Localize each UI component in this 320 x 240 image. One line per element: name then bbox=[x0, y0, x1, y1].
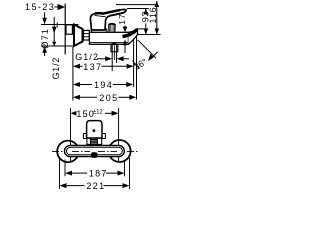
svg-text:±12: ±12 bbox=[93, 110, 104, 116]
component union nut bbox=[84, 30, 90, 40]
component right escutcheon circle bbox=[109, 140, 131, 162]
dimension 150 +/-12 extension lines bbox=[70, 108, 72, 163]
svg-text:G1/2: G1/2 bbox=[75, 52, 99, 62]
node centerline (front view) bbox=[52, 151, 138, 153]
svg-text:15-23: 15-23 bbox=[25, 2, 55, 12]
component lever handle (side view) bbox=[90, 9, 126, 30]
wire handle top reference L1 bbox=[116, 4, 156, 6]
component left escutcheon circle bbox=[57, 141, 79, 163]
dimension Ø71 arrows bbox=[44, 12, 46, 21]
dimension 17 label bbox=[117, 13, 127, 25]
wire Ø71 bottom reference line bbox=[41, 45, 74, 47]
dimension 93 bbox=[145, 9, 147, 11]
dimension 194 row bbox=[73, 82, 80, 87]
wire 187 extension lines bbox=[64, 160, 66, 177]
wire spout extension lines bbox=[133, 39, 135, 88]
svg-text:116: 116 bbox=[148, 6, 158, 23]
component handle cover (front view) bbox=[87, 121, 102, 138]
dimension Ø71 label bbox=[40, 28, 50, 49]
dimension 187 row bbox=[65, 171, 72, 176]
dimension 15-23 arrow bbox=[58, 4, 66, 10]
dimension G1/2 left label bbox=[51, 57, 61, 80]
dimension 36 degree label bbox=[132, 56, 149, 72]
component spout end bbox=[128, 29, 137, 44]
wire outlet reference L3 bbox=[137, 34, 161, 36]
svg-text:187: 187 bbox=[89, 168, 108, 178]
dimension 36 degree arc bbox=[133, 61, 140, 69]
wire 15-23 reference tick bbox=[56, 22, 58, 27]
dimension 17 arrows bbox=[124, 26, 126, 29]
svg-text:Ø71: Ø71 bbox=[40, 28, 50, 49]
dimension 150 +/-12 row bbox=[71, 111, 77, 116]
component hose outlet nub (front view) bbox=[91, 152, 97, 158]
wire 221 extension lines bbox=[59, 158, 61, 189]
dimension 15-23 label bbox=[25, 2, 55, 12]
dimension G1/2 left vertical bbox=[53, 17, 55, 46]
svg-text:205: 205 bbox=[99, 93, 118, 103]
component escutcheon cone (side view) bbox=[74, 25, 83, 47]
wire reference L2 bbox=[127, 8, 149, 10]
svg-text:194: 194 bbox=[94, 80, 113, 90]
dimension 137 row bbox=[73, 64, 80, 69]
wire Ø71 top reference line bbox=[41, 24, 79, 26]
component hose outlet below body bbox=[111, 44, 113, 71]
wire 36 degree slant line bbox=[138, 40, 156, 58]
component cartridge cover bbox=[92, 29, 108, 33]
svg-text:17: 17 bbox=[117, 13, 127, 25]
wire 36 degree horizontal ray bbox=[137, 28, 149, 30]
dimension 36 degree arrow bbox=[148, 54, 154, 62]
dimension 205 row bbox=[73, 95, 80, 100]
dimension G1/2 row (top view) bbox=[75, 52, 99, 62]
svg-text:221: 221 bbox=[87, 181, 106, 190]
component body bar (front view) bbox=[65, 145, 125, 156]
node pipe box on wall bbox=[66, 25, 72, 34]
wire wall line bbox=[64, 4, 66, 55]
svg-text:137: 137 bbox=[83, 62, 102, 72]
component side tabs bbox=[83, 134, 86, 139]
component faucet body (side view) bbox=[89, 32, 128, 44]
component diverter knob bbox=[109, 24, 115, 32]
wire left reference extension for bottom dims bbox=[72, 47, 74, 101]
dimension 221 row bbox=[60, 183, 67, 188]
component collar with hatch bbox=[87, 138, 102, 144]
dimension 116 bbox=[156, 1, 158, 35]
svg-text:G1/2: G1/2 bbox=[51, 57, 61, 80]
